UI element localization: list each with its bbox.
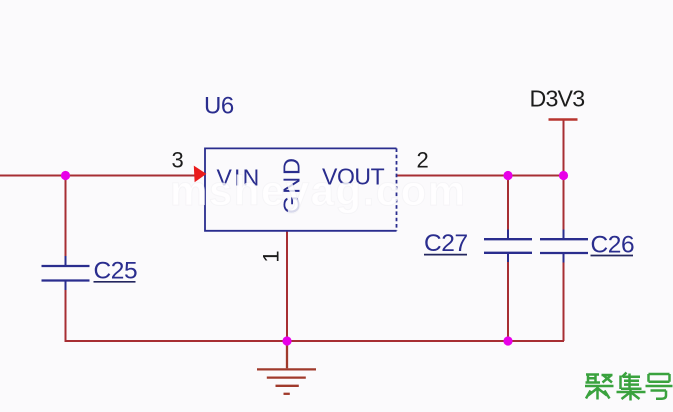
watermark logo green: [585, 373, 673, 401]
power bar D3V3: [549, 118, 578, 121]
wire pin1 GND: [286, 231, 288, 341]
svg-text:1: 1: [259, 250, 284, 262]
svg-text:msheyag.com: msheyag.com: [170, 167, 467, 214]
capacitor C26: [540, 230, 588, 263]
input arrow into pin 3: [194, 166, 207, 183]
capacitor C27: [484, 230, 532, 263]
wire junction down to C25: [65, 175, 67, 257]
wire C27 bottom to rail: [507, 262, 509, 341]
capacitor C25: [42, 256, 90, 290]
svg-text:D3V3: D3V3: [530, 86, 585, 112]
junction node VOUT/D3V3/C26: [559, 171, 568, 180]
regulator U6 box dashed right edge: [396, 148, 398, 230]
junction node rail/C27: [503, 336, 512, 345]
wire bottom rail: [65, 340, 565, 342]
wire input net left: [0, 175, 196, 177]
wire pin2 VOUT net: [397, 175, 564, 177]
junction node rail/GND: [282, 336, 291, 345]
regulator U6 box: [205, 148, 397, 230]
wire C26 bottom to rail: [563, 263, 565, 342]
wire D3V3 drop: [563, 120, 565, 176]
svg-text:C25: C25: [94, 258, 138, 285]
wire C27 top lead: [507, 176, 509, 230]
wire C26 top lead: [563, 176, 565, 230]
svg-text:C27: C27: [424, 230, 468, 257]
ground symbol: [257, 341, 316, 394]
svg-text:C26: C26: [591, 231, 635, 258]
wire C25 bottom to bottom rail: [65, 290, 67, 341]
junction node input/C25: [61, 171, 70, 180]
junction node VOUT/C27: [503, 171, 512, 180]
svg-text:U6: U6: [204, 93, 234, 120]
